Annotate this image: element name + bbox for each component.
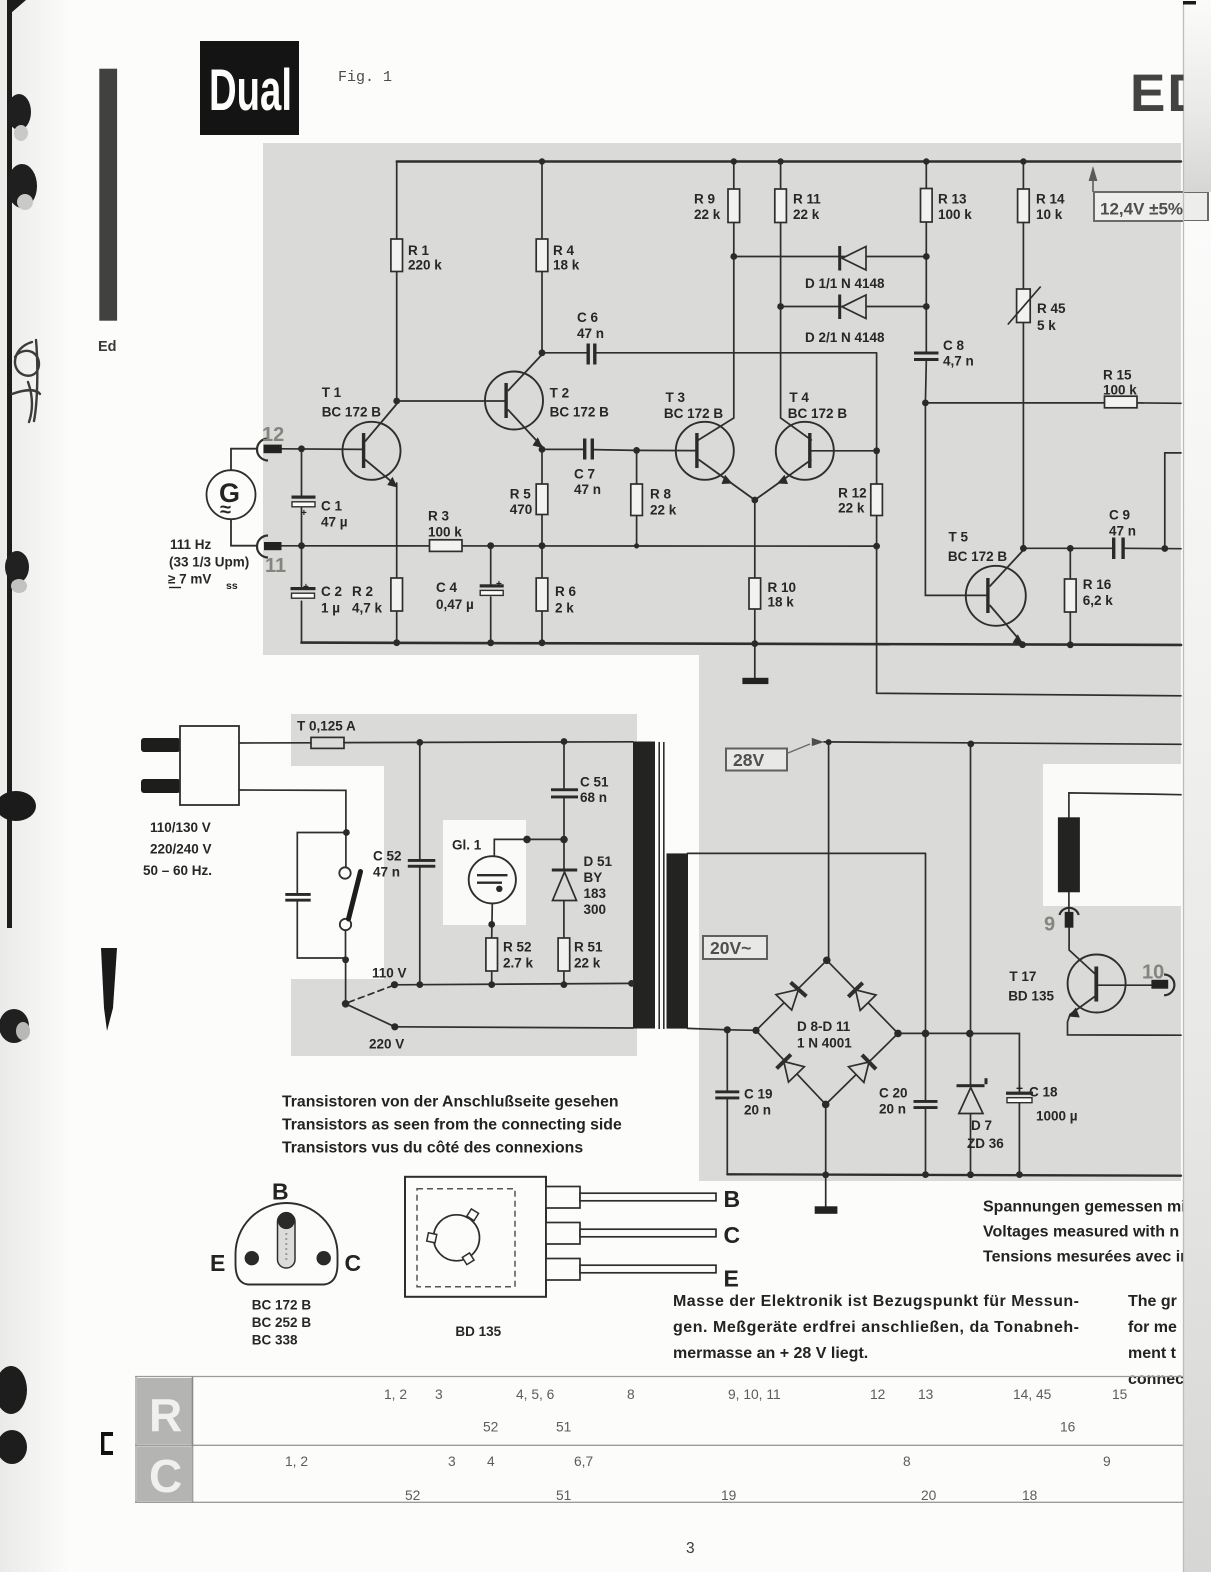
svg-text:1, 2: 1, 2 <box>285 1454 308 1469</box>
svg-text:2 k: 2 k <box>555 601 574 616</box>
svg-text:10 k: 10 k <box>1036 207 1063 222</box>
svg-text:51: 51 <box>556 1420 571 1435</box>
svg-text:T 4: T 4 <box>789 390 809 405</box>
svg-text:15: 15 <box>1112 1387 1128 1402</box>
svg-text:E: E <box>724 1266 739 1292</box>
svg-text:1 µ: 1 µ <box>321 601 340 616</box>
wire C7 line <box>542 449 695 450</box>
svg-text:20 n: 20 n <box>744 1103 771 1118</box>
svg-text:C 9: C 9 <box>1109 508 1130 523</box>
wire 20V~ line to bridge left <box>688 1028 757 1030</box>
svg-text:BD 135: BD 135 <box>1008 989 1054 1004</box>
ground reference note english (cut) <box>1128 1293 1184 1388</box>
svg-text:BC 252 B: BC 252 B <box>252 1315 312 1330</box>
wire bottom rail <box>302 643 1182 645</box>
svg-text:183: 183 <box>584 886 607 901</box>
wire input line 11 <box>282 545 877 547</box>
svg-text:0,47 µ: 0,47 µ <box>436 597 474 612</box>
svg-text:T 0,125 A: T 0,125 A <box>297 719 356 734</box>
svg-text:R 2: R 2 <box>352 584 373 599</box>
resistor R8 <box>631 484 677 518</box>
resistor R10 <box>749 578 796 610</box>
svg-text:R 14: R 14 <box>1036 192 1065 207</box>
BD135 package <box>405 1177 546 1297</box>
svg-text:4,7 n: 4,7 n <box>943 354 974 369</box>
white inset around Gl.1 <box>443 820 526 925</box>
svg-text:R 3: R 3 <box>428 509 450 524</box>
svg-text:T 1: T 1 <box>322 385 342 400</box>
wire C2 branch <box>301 546 303 643</box>
bracket mark <box>101 1432 113 1455</box>
svg-text:C 6: C 6 <box>577 310 599 325</box>
wire D7 column <box>970 744 972 1175</box>
wire C51/D51/R51 column <box>563 742 565 985</box>
transistor T5 <box>948 530 1026 645</box>
wire emitters common to R10 <box>754 500 756 644</box>
transistor T1 <box>322 385 401 488</box>
svg-text:BC 172 B: BC 172 B <box>550 405 610 420</box>
transistor T17 <box>1008 955 1125 1018</box>
svg-text:110 V: 110 V <box>372 966 407 981</box>
svg-text:BC 172 B: BC 172 B <box>322 405 382 420</box>
svg-text:6,2 k: 6,2 k <box>1083 593 1114 608</box>
svg-text:300: 300 <box>584 902 607 917</box>
svg-text:3: 3 <box>435 1387 443 1402</box>
svg-text:47 n: 47 n <box>574 482 601 497</box>
svg-text:T 17: T 17 <box>1009 969 1036 984</box>
svg-text:47 n: 47 n <box>1109 524 1136 539</box>
Ed text <box>98 339 117 355</box>
svg-text:gen. Meßgeräte erdfrei anschli: gen. Meßgeräte erdfrei anschließen, da T… <box>673 1319 1079 1336</box>
wire switch column <box>345 833 347 1004</box>
BD135 lead letters <box>724 1186 741 1292</box>
wire mains top line with fuse <box>239 742 633 743</box>
svg-text:18 k: 18 k <box>553 258 580 273</box>
svg-text:R 4: R 4 <box>553 243 575 258</box>
resistor R12 <box>838 484 882 516</box>
ground reference note german <box>673 1293 1079 1362</box>
terminal 12 <box>257 424 284 461</box>
svg-text:C 2: C 2 <box>321 584 342 599</box>
resistor R52 <box>486 938 534 971</box>
diode D51 BY183/300 <box>552 854 613 917</box>
switch contacts <box>339 867 360 930</box>
wire T17 emitter line <box>1068 1015 1182 1036</box>
wire switch to 220V <box>346 1004 395 1027</box>
svg-text:12: 12 <box>262 424 284 446</box>
svg-text:Tensions mesurées avec in: Tensions mesurées avec in <box>983 1249 1190 1266</box>
svg-text:4, 5, 6: 4, 5, 6 <box>516 1387 555 1402</box>
page number <box>686 1540 695 1557</box>
svg-text:1000 µ: 1000 µ <box>1036 1109 1078 1124</box>
punch hole 2 <box>7 164 37 210</box>
table row header R <box>137 1377 193 1503</box>
svg-text:10: 10 <box>1142 962 1164 984</box>
wire R1 column <box>396 162 398 402</box>
table numbers row C <box>285 1454 1111 1503</box>
svg-text:1 N 4001: 1 N 4001 <box>797 1036 852 1051</box>
wire R11/T4 collector column <box>781 162 812 441</box>
svg-text:11: 11 <box>265 555 286 577</box>
svg-text:3: 3 <box>686 1540 695 1557</box>
table numbers row R <box>384 1387 1128 1435</box>
svg-text:ss: ss <box>226 580 238 592</box>
svg-text:12,4V ±5%: 12,4V ±5% <box>1100 200 1183 219</box>
input signal labels <box>168 537 249 592</box>
svg-text:100 k: 100 k <box>1103 383 1137 398</box>
transistor T3 <box>664 390 755 500</box>
svg-text:C 8: C 8 <box>943 338 965 353</box>
wire transformer secondary top to bridge right <box>688 853 926 1033</box>
resistor R5 <box>510 484 548 517</box>
svg-text:52: 52 <box>405 1488 420 1503</box>
generator G symbol <box>207 449 258 546</box>
punch hole 4 <box>0 791 36 821</box>
svg-text:Ed: Ed <box>98 339 117 355</box>
resistor R16 <box>1065 577 1114 612</box>
gray scan panel: C52/Gl1 column <box>384 714 637 1056</box>
punch hole 5 <box>0 1009 30 1043</box>
measurement note (cut at right) <box>983 1199 1190 1266</box>
svg-text:22 k: 22 k <box>574 956 601 971</box>
svg-text:12: 12 <box>870 1387 885 1402</box>
resistor R2 <box>352 578 403 616</box>
svg-text:R 6: R 6 <box>555 584 577 599</box>
svg-text:ment t: ment t <box>1128 1345 1177 1362</box>
svg-text:BC 172 B: BC 172 B <box>948 549 1008 564</box>
svg-text:R: R <box>149 1389 182 1441</box>
svg-text:20: 20 <box>921 1488 937 1503</box>
svg-text:9: 9 <box>1044 914 1055 936</box>
svg-text:Spannungen gemessen mi: Spannungen gemessen mi <box>983 1199 1186 1216</box>
left paper edge shading <box>0 0 72 1572</box>
wire 110V tap line <box>395 983 632 984</box>
wire bridge bottom to ground <box>825 1104 827 1206</box>
svg-text:≈: ≈ <box>220 499 231 521</box>
svg-text:19: 19 <box>721 1488 737 1503</box>
svg-text:R 8: R 8 <box>650 487 672 502</box>
svg-text:100 k: 100 k <box>938 207 972 222</box>
voltage box 12,4V <box>1089 166 1208 221</box>
svg-text:BC 338: BC 338 <box>252 1333 298 1348</box>
wire R13/C8 column <box>924 162 927 403</box>
svg-text:14, 45: 14, 45 <box>1013 1387 1052 1402</box>
tap label 110 V <box>372 966 407 981</box>
svg-text:8: 8 <box>627 1387 635 1402</box>
wire switch capacitor branch <box>297 833 346 959</box>
wire top supply rail <box>397 160 1181 162</box>
svg-text:51: 51 <box>556 1488 571 1503</box>
wire choke to terminal 9 and T17 collector <box>1069 892 1095 973</box>
resistor R15 <box>1103 368 1137 408</box>
wire T4 base / R12 / output column <box>877 451 1181 696</box>
svg-text:C 1: C 1 <box>321 499 343 514</box>
svg-text:+: + <box>301 508 307 519</box>
Dual logo <box>200 41 299 135</box>
svg-text:16: 16 <box>1060 1420 1076 1435</box>
wire feedback bracket <box>1165 453 1181 549</box>
svg-text:18: 18 <box>1022 1488 1038 1503</box>
svg-text:52: 52 <box>483 1420 498 1435</box>
svg-text:R 1: R 1 <box>408 243 430 258</box>
svg-text:220 k: 220 k <box>408 258 442 273</box>
pen wedge mark <box>101 948 117 1031</box>
voltage box 28V <box>726 738 824 771</box>
resistor R6 <box>536 578 576 616</box>
transformer secondary winding <box>667 853 689 1028</box>
svg-text:47 n: 47 n <box>373 865 400 880</box>
svg-text:R 15: R 15 <box>1103 368 1132 383</box>
svg-text:+: + <box>496 579 502 590</box>
bridge rectifier D8-D11 <box>776 982 876 1082</box>
diode D1 1N4148 <box>805 246 885 291</box>
wire choke top <box>1069 793 1181 817</box>
wire ground stub top schematic <box>754 644 756 678</box>
svg-text:47 n: 47 n <box>577 326 604 341</box>
svg-text:Gl. 1: Gl. 1 <box>452 838 482 853</box>
transformer primary winding <box>633 742 655 1029</box>
wire switch to 110V dashed <box>349 986 392 1002</box>
punch hole 7 <box>0 1430 27 1464</box>
BC type list <box>252 1298 312 1348</box>
voltage box 20V~ <box>703 936 767 959</box>
wire Gl.1 top branch <box>494 839 564 856</box>
ED heading <box>1130 64 1208 123</box>
svg-text:Voltages measured with n: Voltages measured with n <box>983 1224 1179 1241</box>
wire C8 to T5 base <box>925 403 986 596</box>
resistor R13 <box>921 189 973 223</box>
wire T1 emitter to R2 to rail <box>396 483 398 643</box>
svg-text:C: C <box>345 1250 362 1276</box>
svg-text:ZD 36: ZD 36 <box>967 1136 1004 1151</box>
resistor R1 <box>391 239 442 273</box>
wire 220V tap line <box>395 1027 633 1028</box>
svg-text:220/240 V: 220/240 V <box>150 842 212 857</box>
svg-text:R 51: R 51 <box>574 940 603 955</box>
terminal 10 <box>1142 962 1174 996</box>
svg-text:C 4: C 4 <box>436 580 458 595</box>
svg-text:8: 8 <box>903 1454 911 1469</box>
gray scan panel: right power supply block <box>699 645 1181 1181</box>
transistor T2 <box>485 355 609 449</box>
wire C6 coupling line <box>542 353 877 451</box>
svg-text:20V~: 20V~ <box>710 938 751 958</box>
svg-text:(33 1/3 Upm): (33 1/3 Upm) <box>169 555 249 570</box>
svg-text:D 51: D 51 <box>584 854 613 869</box>
svg-text:C 20: C 20 <box>879 1086 908 1101</box>
svg-text:4,7 k: 4,7 k <box>352 601 383 616</box>
capacitor C9 <box>1109 508 1136 560</box>
svg-text:1, 2: 1, 2 <box>384 1387 407 1402</box>
svg-text:BC 172 B: BC 172 B <box>664 406 724 421</box>
svg-text:13: 13 <box>918 1387 934 1402</box>
punch hole 3 <box>5 551 29 593</box>
BC172 package outline <box>236 1203 338 1285</box>
right margin band <box>1183 0 1211 1572</box>
svg-text:9: 9 <box>1103 1454 1111 1469</box>
svg-text:E: E <box>210 1250 225 1276</box>
wire terminal 12 to T1 base <box>282 448 362 451</box>
svg-text:connec: connec <box>1128 1371 1184 1388</box>
punch hole 1 <box>7 94 31 141</box>
svg-text:R 11: R 11 <box>793 192 821 207</box>
gray scan panel: mains voltage band <box>291 979 637 1056</box>
mains voltage labels <box>143 820 212 878</box>
svg-text:BC 172 B: BC 172 B <box>252 1298 312 1313</box>
wire R16 column <box>1069 548 1071 644</box>
svg-text:+: + <box>1016 1082 1023 1096</box>
svg-text:BC 172 B: BC 172 B <box>788 406 848 421</box>
svg-text:B: B <box>272 1179 289 1205</box>
wire R4/T2 column <box>541 162 543 353</box>
svg-text:T 2: T 2 <box>550 386 570 401</box>
gray scan panel: fuse band <box>291 714 601 766</box>
svg-text:Dual: Dual <box>209 58 292 123</box>
svg-text:470: 470 <box>510 502 533 517</box>
svg-text:BD 135: BD 135 <box>455 1324 501 1339</box>
svg-text:2.7 k: 2.7 k <box>503 956 534 971</box>
svg-text:68 n: 68 n <box>580 790 607 805</box>
svg-text:6,7: 6,7 <box>574 1454 593 1469</box>
svg-text:C 18: C 18 <box>1029 1085 1058 1100</box>
mains plug <box>141 726 239 805</box>
table row header C <box>137 1446 193 1502</box>
terminal 11 <box>257 536 286 578</box>
wire C19 column <box>726 1030 728 1175</box>
svg-text:R 5: R 5 <box>510 487 532 502</box>
wire mains bottom line <box>239 790 346 833</box>
svg-text:Fig. 1: Fig. 1 <box>338 69 392 86</box>
svg-text:110/130 V: 110/130 V <box>150 820 211 835</box>
BD135 leads <box>546 1187 716 1281</box>
surge arrester Gl.1 <box>452 838 516 904</box>
resistor R3 <box>428 509 462 552</box>
svg-text:R 13: R 13 <box>938 192 967 207</box>
fuse T 0,125 A <box>297 719 356 749</box>
svg-text:D 8-D 11: D 8-D 11 <box>797 1019 851 1034</box>
wire C18 lower lead <box>1018 1103 1020 1175</box>
svg-text:3: 3 <box>448 1454 456 1469</box>
svg-text:9, 10, 11: 9, 10, 11 <box>728 1387 781 1402</box>
wire C4 branch <box>490 546 492 643</box>
capacitor C20 <box>879 1086 938 1117</box>
wire 28V rail <box>824 742 1181 744</box>
svg-text:Masse der Elektronik ist Bezug: Masse der Elektronik ist Bezugspunkt für… <box>673 1293 1079 1310</box>
wire R8 column <box>636 450 638 546</box>
junction dots top schematic <box>298 158 1168 648</box>
svg-text:100 k: 100 k <box>428 525 462 540</box>
capacitor C1 electrolytic <box>292 496 348 530</box>
wire R15 line <box>925 402 1181 404</box>
svg-text:5 k: 5 k <box>1037 318 1056 333</box>
ground symbol top schematic <box>742 678 768 684</box>
wire C52 column <box>419 742 421 984</box>
wire C20 column <box>925 1033 927 1174</box>
wire D1 row <box>734 256 927 258</box>
junction dots power supply <box>342 738 1023 1178</box>
choke winding <box>1058 817 1080 892</box>
svg-text:Transistors vus du côté des co: Transistors vus du côté des connexions <box>282 1140 583 1157</box>
wire D2 row <box>781 306 927 308</box>
capacitor C52 <box>373 849 435 880</box>
ground symbol power supply <box>815 1206 838 1214</box>
resistor R51 <box>558 938 603 971</box>
capacitor C2 electrolytic <box>291 582 343 616</box>
svg-text:50 – 60 Hz.: 50 – 60 Hz. <box>143 863 212 878</box>
svg-text:mermasse an + 28 V liegt.: mermasse an + 28 V liegt. <box>673 1345 868 1362</box>
transistor view note <box>282 1094 622 1157</box>
switch capacitor <box>285 893 310 902</box>
svg-text:C: C <box>724 1222 741 1248</box>
wire ground rail <box>727 1174 1181 1175</box>
diode D2 1N4148 <box>805 295 885 346</box>
svg-text:22 k: 22 k <box>838 501 865 516</box>
svg-text:BY: BY <box>584 870 603 885</box>
svg-text:18 k: 18 k <box>768 595 795 610</box>
capacitor C8 <box>914 338 974 369</box>
svg-text:≥ 7 mV: ≥ 7 mV <box>168 572 211 587</box>
svg-text:R 12: R 12 <box>838 486 867 501</box>
svg-text:T 3: T 3 <box>666 390 686 405</box>
svg-text:4: 4 <box>487 1454 495 1469</box>
white inset around choke <box>1043 764 1181 906</box>
punch hole 6 <box>0 1366 27 1414</box>
wire T2 base <box>397 400 505 402</box>
Ed sidebar bar <box>99 69 117 321</box>
Fig. 1 caption <box>338 69 392 86</box>
svg-text:220 V: 220 V <box>369 1037 404 1052</box>
wire T2 emitter R5 R6 column <box>541 449 543 642</box>
capacitor C7 <box>574 439 601 498</box>
zener diode D7 ZD36 <box>957 1078 1005 1151</box>
svg-text:B: B <box>724 1186 741 1212</box>
capacitor C19 <box>715 1087 772 1118</box>
svg-text:D 2/1 N 4148: D 2/1 N 4148 <box>805 330 885 345</box>
svg-text:28V: 28V <box>733 750 764 770</box>
svg-text:C 52: C 52 <box>373 849 402 864</box>
wire bridge right corner link <box>898 1033 1019 1091</box>
svg-text:C 51: C 51 <box>580 775 609 790</box>
BD135 caption <box>455 1324 501 1339</box>
transistor T4 <box>755 390 877 500</box>
svg-text:R 45: R 45 <box>1037 301 1066 316</box>
svg-text:R 10: R 10 <box>768 580 797 595</box>
wire T17 base from terminal 10 <box>1099 984 1152 986</box>
tap label 220 V <box>369 1037 404 1052</box>
potentiometer R45 <box>1008 287 1066 334</box>
svg-text:R 9: R 9 <box>694 192 715 207</box>
resistor R14 <box>1018 189 1065 223</box>
wire C9 line <box>1023 547 1181 549</box>
capacitor C4 electrolytic <box>436 579 504 612</box>
svg-text:22 k: 22 k <box>793 207 820 222</box>
svg-text:for me: for me <box>1128 1319 1177 1336</box>
scan black edge strip <box>7 0 26 928</box>
capacitor C51 <box>551 775 609 806</box>
svg-text:22 k: 22 k <box>650 503 677 518</box>
svg-text:111 Hz: 111 Hz <box>170 537 212 552</box>
wire R14/R45 column <box>1022 162 1024 549</box>
gray scan panel: main schematic <box>263 143 1181 655</box>
svg-text:R 52: R 52 <box>503 940 532 955</box>
wire R9/T3 collector column <box>698 162 733 441</box>
svg-text:R 16: R 16 <box>1083 577 1112 592</box>
svg-text:D 1/1 N 4148: D 1/1 N 4148 <box>805 276 885 291</box>
svg-text:C: C <box>149 1450 182 1502</box>
svg-text:D 7: D 7 <box>971 1118 992 1133</box>
wire C1 branch <box>301 449 303 546</box>
capacitor C6 <box>577 310 604 365</box>
